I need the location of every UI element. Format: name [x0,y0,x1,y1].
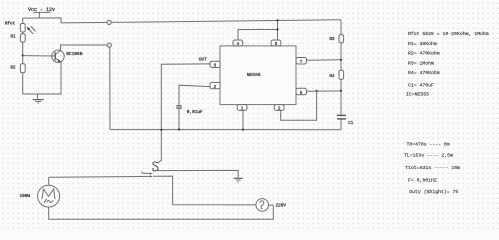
svg-text:Duty (%hight)= 75: Duty (%hight)= 75 [409,189,458,195]
svg-text:Rfot: Rfot [5,21,16,26]
svg-text:R1= 36Kohm: R1= 36Kohm [408,41,437,47]
node rail-pin1 [242,129,244,131]
connector circle B [107,43,111,47]
pin 8 [271,40,281,46]
wire bottom rail [110,129,341,131]
node pin6 tee [316,90,318,92]
svg-text:R4= 470Kohm: R4= 470Kohm [408,70,440,76]
pin 6 [296,88,307,95]
svg-text:100W: 100W [20,194,31,199]
wire Rfot top stub [22,18,24,23]
wire R4 to C1 [340,79,342,115]
connector circle A on top rail [107,20,111,24]
pin 1 [237,105,247,111]
capacitor 0,01uF [176,105,181,107]
ground right [234,177,243,179]
svg-text:R3= 1Mohm: R3= 1Mohm [408,61,434,67]
wire collector drop to bottom rail [109,47,111,129]
svg-text:F= 0,001HZ: F= 0,001HZ [408,177,437,183]
svg-text:R4: R4 [330,75,336,79]
pin 7 [296,58,307,65]
node R3R4 [340,59,342,61]
svg-text:R3: R3 [330,38,336,42]
wire R1 to R2 [22,42,24,64]
node R4C1 [340,90,342,92]
wire pin2 to C 0,01uF [179,85,210,105]
svg-text:NE555: NE555 [247,72,261,78]
triac S symbol [153,162,158,171]
wire triac to ground [155,170,238,177]
node rail dot [276,19,278,21]
node rail-out [160,129,162,131]
resistor R3 [340,20,342,35]
transistor Q1 BC106B [52,50,64,62]
op-amp U1 NE555 body [220,46,296,105]
Rfot light arrows [28,26,35,34]
pin 4 [233,40,243,46]
wire Rfot-R1 [22,32,24,34]
pin 2 left [210,82,220,88]
svg-text:OUT: OUT [199,57,207,63]
svg-text:C1: C1 [348,122,354,126]
gate arrow upper [142,172,150,174]
wire base [23,55,56,57]
wire pin7 to R3R4 [307,59,342,61]
node rail-cap [178,128,180,130]
svg-text:Rfot 5528 = 10-20Kohm, 1Mohm: Rfot 5528 = 10-20Kohm, 1Mohm [408,31,489,37]
wire pin3 OUT [158,64,210,163]
ground left [37,94,39,99]
wire pin1 to rail [242,110,244,129]
wire lamp bottom rail [49,205,274,219]
pin 5 bottom [274,105,284,111]
wire gate from lamp [49,175,150,178]
wire collector [61,45,108,51]
wire R2 bottom / emitter return [23,62,61,94]
wire Vcc stub [38,12,40,18]
wire pin5 to ctrl node [281,91,317,120]
svg-text:R1: R1 [11,36,17,40]
svg-text:BC106B: BC106B [66,51,83,57]
wire R3-R4 [340,43,342,71]
node pin8 dot [276,28,278,30]
source V1 220V [256,199,269,212]
svg-text:TH=478s ---- 8m: TH=478s ---- 8m [407,142,450,148]
svg-text:220V: 220V [276,203,287,208]
svg-text:0,01uF: 0,01uF [187,110,203,115]
svg-text:Ttot=631s ----- 10m: Ttot=631s ----- 10m [405,165,460,171]
svg-text:C1= 470uF: C1= 470uF [408,83,434,89]
svg-text:R2: R2 [11,66,17,70]
wire pin6 to node [307,90,342,92]
lamp L1 [48,177,50,185]
pin 3 [210,61,220,67]
wire top rail [23,18,341,23]
capacitor C1 [337,114,346,116]
node base junction [22,54,24,56]
svg-text:TL=153s ---- 2,5m: TL=153s ---- 2,5m [404,153,453,159]
wire Vcc underline [34,11,51,13]
wire pins 4,8 to rail [238,30,278,41]
svg-text:IC=NE555: IC=NE555 [406,92,429,98]
svg-text:R2= 470Kohm: R2= 470Kohm [408,51,440,57]
